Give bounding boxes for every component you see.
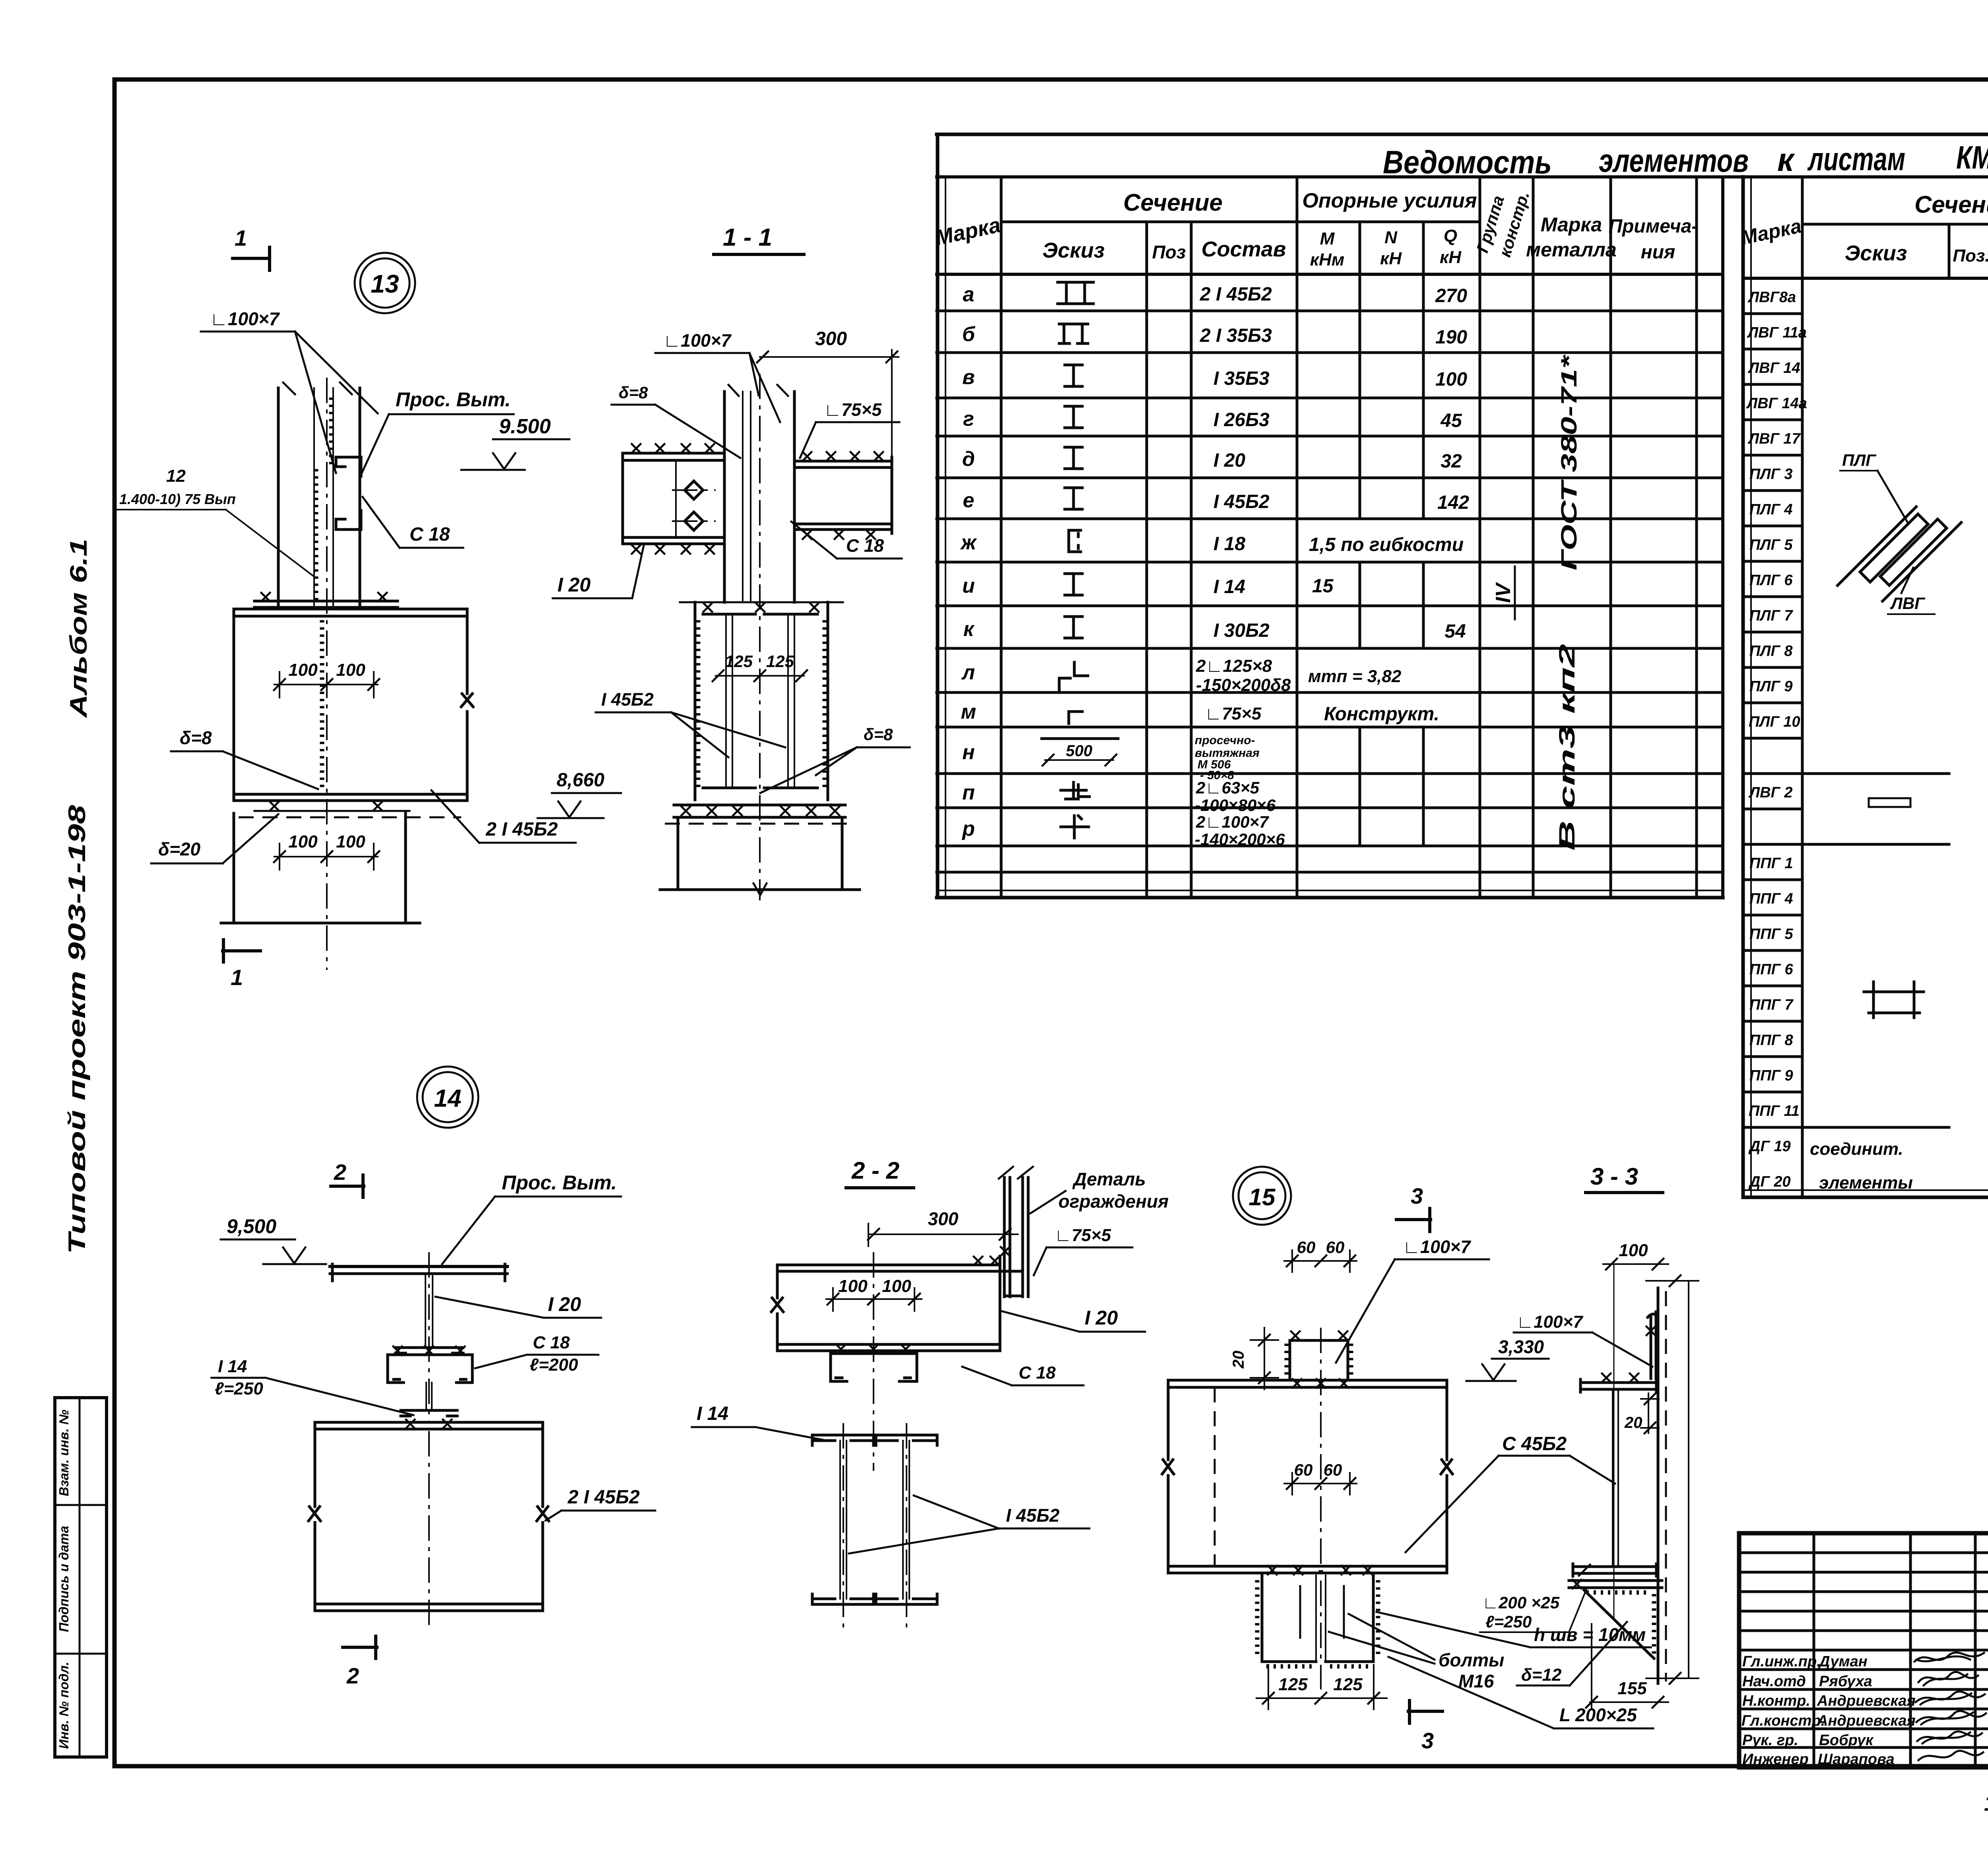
row л: angles [1059,662,1088,690]
svg-text:20: 20 [1230,1351,1247,1369]
svg-text:IV: IV [1492,582,1515,603]
svg-text:в: в [962,366,975,389]
left half header lines [1001,221,1480,223]
svg-text:С 18: С 18 [533,1333,570,1352]
svg-text:ППГ 7: ППГ 7 [1749,997,1794,1013]
lower beam 2I45B2 [309,1422,549,1611]
node circle 15 [1233,1167,1291,1225]
svg-text:Поз.: Поз. [1953,246,1988,266]
svg-text:Подпись и дата: Подпись и дата [56,1526,71,1632]
table top border [937,133,1988,136]
svg-text:ПЛГ 9: ПЛГ 9 [1749,678,1792,695]
svg-text:100: 100 [838,1276,868,1296]
svg-text:2: 2 [334,1160,346,1185]
svg-text:Сечение: Сечение [1123,189,1223,216]
svg-text:С 18: С 18 [410,524,450,545]
svg-text:г: г [963,407,974,431]
svg-text:155: 155 [1617,1679,1647,1698]
svg-text:∟75×5: ∟75×5 [824,400,882,420]
svg-text:100: 100 [288,832,318,851]
svg-text:ДГ 20: ДГ 20 [1748,1173,1791,1190]
wall lines [1657,1288,1660,1683]
svg-text:Эскиз: Эскиз [1043,239,1105,262]
svg-text:ППГ 8: ППГ 8 [1749,1032,1794,1049]
svg-text:ЛВГ 14а: ЛВГ 14а [1746,395,1807,412]
svg-text:∟75×5: ∟75×5 [1054,1226,1111,1245]
svg-text:а: а [963,283,975,306]
svg-text:листам: листам [1807,141,1905,177]
svg-text:60: 60 [1297,1238,1316,1257]
svg-text:Эскиз: Эскиз [1845,241,1907,265]
эскиз symbols column [1042,282,1118,838]
svg-text:2 I 45Б2: 2 I 45Б2 [1200,284,1272,305]
bottom bracket with welds [1262,1575,1373,1662]
svg-text:I 45Б2: I 45Б2 [1213,491,1270,512]
svg-text:КМ 10 ÷: КМ 10 ÷ [1956,140,1988,176]
svg-text:Прос. Выт.: Прос. Выт. [502,1171,617,1194]
lines extended through Эскиз column [1743,774,1949,1127]
svg-text:Думан: Думан [1818,1653,1868,1670]
right table эскиз sketch: diagonal plates ПЛГ/ЛВГ [1838,451,1961,616]
svg-text:I 20: I 20 [1213,450,1245,471]
svg-text:∟100×7: ∟100×7 [1516,1312,1584,1332]
svg-text:45: 45 [1440,410,1462,431]
I14 under [426,1383,432,1409]
RIGHT HALF grid [1741,177,1745,1197]
base plate [674,805,845,817]
svg-text:просечно-: просечно- [1195,734,1255,747]
lower column section [695,602,828,800]
svg-text:L 200×25: L 200×25 [1559,1705,1637,1725]
C18 channel under beam [388,1355,472,1383]
опорные усилия values [1308,285,1469,725]
svg-text:100: 100 [1619,1241,1648,1260]
svg-text:р: р [961,817,975,840]
I20 bottom flange [396,1348,463,1353]
svg-text:элементов: элементов [1599,143,1749,179]
svg-text:1,5 по гибкости: 1,5 по гибкости [1309,534,1464,555]
svg-text:∟100×7: ∟100×7 [210,308,280,329]
svg-text:δ=8: δ=8 [619,383,648,402]
svg-text:ЛВГ: ЛВГ [1890,594,1926,613]
svg-text:1.400-10) 75 Вып: 1.400-10) 75 Вып [119,491,236,507]
main beam (2 I 45B2) [234,609,473,801]
svg-text:32: 32 [1441,451,1462,472]
svg-text:ж: ж [960,531,977,554]
svg-text:ℓ=200: ℓ=200 [530,1355,578,1375]
bottom splice plate [254,810,410,812]
svg-text:Инженер: Инженер [1742,1751,1809,1768]
svg-text:Ведомость: Ведомость [1383,144,1552,180]
svg-text:болты: болты [1439,1650,1504,1670]
overall height dim right [1646,1281,1699,1678]
svg-text:2∟63×5: 2∟63×5 [1196,778,1260,797]
svg-text:500: 500 [1066,742,1093,760]
svg-text:-100×80×6: -100×80×6 [1195,796,1276,815]
svg-text:60: 60 [1324,1460,1342,1479]
svg-text:ПЛГ 6: ПЛГ 6 [1749,572,1793,589]
svg-text:100: 100 [1435,369,1467,390]
lower column [221,813,420,923]
svg-text:Рябуха: Рябуха [1819,1673,1872,1690]
svg-text:9.500: 9.500 [499,415,551,438]
gusset diagonal [1584,1590,1654,1658]
right half header lines [1802,223,1988,226]
svg-text:Бобрук: Бобрук [1819,1732,1874,1749]
svg-text:е: е [963,489,975,512]
svg-text:С 18: С 18 [846,535,884,556]
svg-text:д: д [962,448,975,471]
right beam [794,457,892,533]
svg-text:ГОСТ 380-71*: ГОСТ 380-71* [1556,355,1581,570]
svg-text:125: 125 [1333,1675,1363,1694]
bolts [1300,1586,1344,1638]
svg-text:12: 12 [166,466,186,486]
svg-text:Альбом 6.1: Альбом 6.1 [65,539,92,719]
svg-text:15: 15 [1249,1184,1276,1210]
svg-text:ППГ 9: ППГ 9 [1749,1067,1793,1084]
svg-text:и: и [962,574,975,597]
svg-text:2∟100×7: 2∟100×7 [1196,813,1269,831]
svg-text:Состав: Состав [1202,237,1286,261]
svg-text:3,330: 3,330 [1498,1336,1544,1357]
svg-text:I 20: I 20 [548,1293,581,1315]
section mark 3 bottom [1408,1701,1442,1723]
C18 channel bracket on column [336,457,361,529]
svg-text:∟75×5: ∟75×5 [1205,704,1262,723]
svg-text:I 14: I 14 [218,1357,247,1376]
table title row bottom [937,175,1988,178]
long extension line from web [1613,1264,1615,1620]
angle 100x7 on wall [1648,1312,1656,1379]
svg-text:I 26Б3: I 26Б3 [1213,409,1270,431]
svg-text:кНм: кНм [1310,250,1345,270]
svg-text:металла: металла [1526,239,1617,261]
svg-text:54: 54 [1444,621,1466,642]
row п: 2L back to back [1061,782,1089,799]
svg-text:ограждения: ограждения [1058,1191,1169,1212]
svg-text:300: 300 [815,328,847,349]
svg-text:I 45Б2: I 45Б2 [601,689,654,710]
main stamp [1739,1533,1988,1767]
column [724,392,794,602]
bottom-left inventory box [55,1398,107,1757]
svg-text:п: п [962,781,975,804]
svg-text:18454-15: 18454-15 [1984,1790,1988,1815]
svg-text:142: 142 [1437,492,1469,513]
svg-text:I 14: I 14 [697,1403,728,1424]
section mark 2 bottom [343,1636,377,1658]
svg-text:1 - 1: 1 - 1 [723,224,772,251]
svg-text:3: 3 [1411,1183,1423,1208]
svg-text:100: 100 [336,660,365,680]
svg-text:ЛВГ 11а: ЛВГ 11а [1747,324,1807,341]
svg-text:С 18: С 18 [1019,1363,1056,1383]
svg-text:I 20: I 20 [1085,1307,1118,1329]
row ж: channel [ [1069,530,1081,552]
beam C45B2 front [1162,1380,1452,1573]
svg-text:кН: кН [1380,249,1402,268]
svg-text:ППГ 4: ППГ 4 [1749,890,1793,907]
svg-text:ПЛГ 8: ПЛГ 8 [1749,643,1793,659]
left half row lines [937,311,1723,872]
Состав column values [1195,284,1291,849]
svg-text:δ=8: δ=8 [864,725,893,744]
svg-text:100: 100 [882,1276,911,1296]
svg-text:ПЛГ 10: ПЛГ 10 [1749,714,1800,730]
svg-text:-150×200δ8: -150×200δ8 [1196,675,1291,695]
beam I20 side [771,1256,1000,1351]
svg-text:125: 125 [725,652,753,671]
svg-text:Взам. инв. №: Взам. инв. № [56,1410,71,1496]
svg-text:л: л [961,661,975,684]
I beam top flange [1580,1379,1656,1392]
svg-text:14: 14 [434,1085,462,1112]
svg-text:Андриевская: Андриевская [1817,1712,1916,1729]
svg-text:I 18: I 18 [1213,533,1245,555]
svg-text:к: к [963,618,975,641]
svg-text:Сечение: Сечение [1914,191,1988,218]
svg-text:13: 13 [371,270,399,298]
bottom flange [1573,1564,1656,1576]
svg-text:ДГ 19: ДГ 19 [1748,1138,1791,1155]
rows в,г,д,е,и,к: I [1065,365,1082,386]
row р: cross [1061,816,1089,838]
row б: П [1059,324,1088,343]
svg-text:-140×200×6: -140×200×6 [1195,830,1285,849]
row н: 500 strip [1042,737,1118,740]
svg-text:Опорные усилия: Опорные усилия [1302,189,1477,212]
svg-text:Примеча-: Примеча- [1609,216,1698,237]
svg-text:Типовой проект 903-1-198: Типовой проект 903-1-198 [64,805,90,1254]
signature labels [1741,1653,1916,1768]
svg-text:2∟125×8: 2∟125×8 [1196,656,1272,676]
svg-text:δ=8: δ=8 [180,727,212,748]
svg-text:100: 100 [288,660,318,680]
svg-text:I 30Б2: I 30Б2 [1213,620,1270,641]
svg-text:Гл.инж.пр.: Гл.инж.пр. [1742,1653,1821,1670]
svg-text:3 - 3: 3 - 3 [1590,1163,1638,1190]
svg-text:I 35Б3: I 35Б3 [1213,368,1270,389]
svg-text:н: н [962,741,975,764]
svg-text:9,500: 9,500 [227,1215,276,1237]
svg-text:15: 15 [1312,576,1334,597]
svg-text:2 I 45Б2: 2 I 45Б2 [485,819,558,840]
column shaft [278,388,360,607]
svg-text:2 I 35Б3: 2 I 35Б3 [1200,325,1272,346]
twin I45B2 cross sections [812,1435,937,1441]
svg-text:20: 20 [1624,1414,1642,1431]
svg-text:Н.контр.: Н.контр. [1742,1693,1810,1709]
svg-text:ЛВГ8а: ЛВГ8а [1747,289,1796,306]
svg-text:ППГ 1: ППГ 1 [1749,855,1793,872]
svg-text:В ст3 кп2: В ст3 кп2 [1554,644,1579,851]
left beam I20 side view [623,453,724,544]
svg-text:I 45Б2: I 45Б2 [1006,1505,1060,1526]
svg-text:ППГ 11: ППГ 11 [1749,1103,1800,1119]
svg-text:ния: ния [1641,242,1675,263]
svg-text:Гл.констр.: Гл.констр. [1741,1712,1825,1729]
angle connecting to post [1000,1256,1023,1296]
svg-text:соединит.: соединит. [1810,1139,1903,1159]
svg-text:ППГ 6: ППГ 6 [1749,961,1794,978]
svg-text:Q: Q [1444,226,1457,246]
svg-text:Конструкт.: Конструкт. [1324,704,1439,725]
ЛВГ2 bar symbol [1869,798,1910,807]
svg-text:∟200 ×25: ∟200 ×25 [1482,1593,1560,1612]
svg-text:Инв. № подл.: Инв. № подл. [56,1662,71,1749]
svg-text:2: 2 [346,1663,359,1688]
C18 under beam [831,1354,917,1381]
svg-text:мтп = 3,82: мтп = 3,82 [1308,667,1402,686]
svg-text:ЛВГ 2: ЛВГ 2 [1748,784,1793,801]
svg-text:125: 125 [766,652,794,671]
twin I beams inside [703,614,817,788]
svg-text:Рук. гр.: Рук. гр. [1742,1732,1798,1749]
top plate [1290,1340,1348,1378]
LEFT HALF grid [936,134,940,898]
svg-text:С 45Б2: С 45Б2 [1502,1433,1567,1455]
row м: Г angle [1069,712,1082,723]
section mark 1 (bottom) [223,940,260,962]
svg-text:М16: М16 [1458,1671,1494,1691]
right half row lines (Марка column) [1743,314,1802,1127]
svg-text:ЛВГ 14: ЛВГ 14 [1747,360,1800,376]
svg-text:8,660: 8,660 [557,770,604,791]
svg-text:Прос. Выт.: Прос. Выт. [396,388,511,411]
svg-text:Поз: Поз [1152,242,1186,262]
svg-text:кН: кН [1440,248,1462,267]
svg-text:2 I 45Б2: 2 I 45Б2 [567,1487,640,1508]
svg-text:60: 60 [1326,1238,1345,1257]
svg-text:N: N [1384,228,1398,247]
L200x25 seat plate [1569,1581,1662,1588]
svg-text:ПЛГ 4: ПЛГ 4 [1749,501,1792,518]
ППГ7 symbol [1864,982,1924,1018]
svg-text:δ=20: δ=20 [158,839,201,859]
svg-text:ℓ=250: ℓ=250 [215,1379,263,1398]
svg-text:ПЛГ 7: ПЛГ 7 [1749,607,1793,624]
svg-text:270: 270 [1435,285,1467,306]
svg-text:ℓ=250: ℓ=250 [1485,1612,1532,1631]
svg-text:I 20: I 20 [557,574,591,596]
svg-text:ПЛГ 5: ПЛГ 5 [1749,537,1793,553]
svg-text:Марка: Марка [1541,213,1602,236]
svg-text:Нач.отд: Нач.отд [1742,1673,1806,1690]
svg-text:100: 100 [336,832,365,851]
svg-text:∟100×7: ∟100×7 [1403,1237,1471,1257]
pedestal [660,820,860,890]
svg-text:I 14: I 14 [1213,576,1245,597]
node circle 13 [355,253,415,313]
svg-text:3: 3 [1421,1728,1434,1753]
svg-text:125: 125 [1278,1675,1308,1694]
svg-text:ПЛГ 3: ПЛГ 3 [1749,466,1792,483]
svg-text:Шарапова: Шарапова [1818,1751,1895,1768]
svg-text:2 - 2: 2 - 2 [851,1157,899,1184]
svg-text:190: 190 [1435,327,1467,348]
svg-text:δ=12: δ=12 [1521,1665,1562,1685]
svg-text:1: 1 [235,225,247,250]
row a: two I [1058,282,1075,304]
svg-text:1: 1 [231,965,243,990]
web [1613,1389,1618,1567]
svg-text:ППГ 5: ППГ 5 [1749,926,1794,943]
weld serration on column [316,398,331,604]
bolts [685,481,703,499]
svg-text:60: 60 [1294,1460,1313,1479]
svg-text:м: м [961,700,976,723]
svg-text:к: к [1777,142,1795,178]
svg-text:ПЛГ: ПЛГ [1842,451,1877,469]
signatures squiggles [1914,1652,1984,1662]
guard post [1004,1177,1028,1297]
svg-text:Андриевская: Андриевская [1817,1693,1916,1709]
node circle 14 [417,1067,478,1128]
svg-text:М: М [1320,229,1335,248]
I20 beam front view [330,1265,507,1268]
svg-text:Деталь: Деталь [1072,1169,1146,1189]
svg-text:б: б [962,323,976,346]
svg-text:300: 300 [928,1208,959,1229]
svg-text:ЛВГ 17: ЛВГ 17 [1747,431,1801,447]
svg-text:∟100×7: ∟100×7 [663,330,732,351]
svg-text:элементы: элементы [1819,1173,1913,1193]
column base plate on beam [254,601,398,607]
